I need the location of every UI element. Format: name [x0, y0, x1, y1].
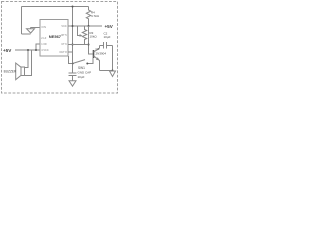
svg-text:1 OF: 1 OF	[41, 43, 47, 46]
svg-text:4 VCC: 4 VCC	[41, 49, 49, 52]
junction dot	[27, 49, 29, 51]
svg-text:10µF: 10µF	[104, 35, 111, 39]
wire to input symbol apex	[22, 33, 31, 35]
wire right supply row y26	[68, 25, 102, 27]
C2 leads	[100, 45, 113, 47]
junction dot	[72, 25, 74, 27]
switch contact and wire	[88, 58, 94, 64]
wire R4 bottom to base	[89, 26, 93, 54]
ground right	[110, 71, 116, 77]
wire +5V rail	[15, 49, 40, 51]
svg-text:10µF: 10µF	[78, 75, 85, 79]
pot wiper arrow	[78, 26, 80, 36]
junction dot	[112, 70, 114, 72]
svg-text:2 LF: 2 LF	[41, 37, 46, 40]
svg-text:2N3904: 2N3904	[96, 52, 107, 56]
switch pivot dot	[72, 63, 74, 65]
svg-text:+5V: +5V	[105, 24, 114, 29]
capacitor C2 plates	[104, 42, 107, 49]
svg-text:10kΩ: 10kΩ	[90, 35, 98, 39]
junction dot	[72, 44, 74, 46]
wire IC corner down to switch	[69, 56, 73, 64]
svg-text:+5V: +5V	[3, 48, 12, 53]
svg-text:VCC: VCC	[61, 25, 66, 28]
wire cap right down	[112, 46, 114, 71]
wire long vertical x72.5	[72, 7, 74, 74]
wire emitter to ground row	[100, 70, 113, 72]
svg-text:SW1: SW1	[78, 66, 85, 70]
capacitor C3 gnd cap plates	[69, 73, 77, 76]
wire cap to ground	[72, 76, 74, 81]
wire speaker top lead	[25, 50, 29, 68]
svg-text:4.7kΩ: 4.7kΩ	[91, 14, 100, 18]
svg-text:BUZZER: BUZZER	[4, 70, 17, 74]
potentiometer R3	[82, 26, 86, 45]
wire input to IC pin 3	[31, 27, 41, 29]
resistor R4	[86, 7, 90, 27]
switch contact dot	[86, 63, 88, 65]
transistor emitter with arrow	[94, 56, 100, 71]
junction dot	[35, 49, 37, 51]
wire pin row y44.5	[68, 44, 89, 46]
svg-text:OUT 8: OUT 8	[59, 51, 67, 54]
junction dot top	[72, 6, 74, 8]
wire branch to pin y44	[36, 44, 40, 50]
svg-text:CT 6: CT 6	[61, 43, 67, 46]
transistor Q1 base bar	[93, 50, 95, 58]
svg-text:RT 5: RT 5	[61, 34, 67, 37]
transistor collector	[94, 46, 100, 53]
dashed enclosure border	[2, 2, 118, 94]
op IC U1 NE567 box	[40, 20, 68, 57]
wire top supply rail	[22, 6, 89, 8]
switch SW1 lever	[73, 60, 86, 64]
junction dot	[88, 44, 90, 46]
input arrow symbol	[27, 28, 35, 34]
svg-text:3 IN: 3 IN	[41, 26, 46, 29]
svg-text:NE567: NE567	[49, 34, 62, 39]
wire speaker bottom lead	[25, 50, 32, 76]
speaker LS1	[16, 63, 25, 80]
svg-text:Q1: Q1	[96, 47, 100, 51]
wire left vertical drop	[21, 7, 23, 35]
wire OUT stub	[68, 51, 73, 53]
ground center	[69, 81, 76, 86]
junction dot	[88, 25, 90, 27]
